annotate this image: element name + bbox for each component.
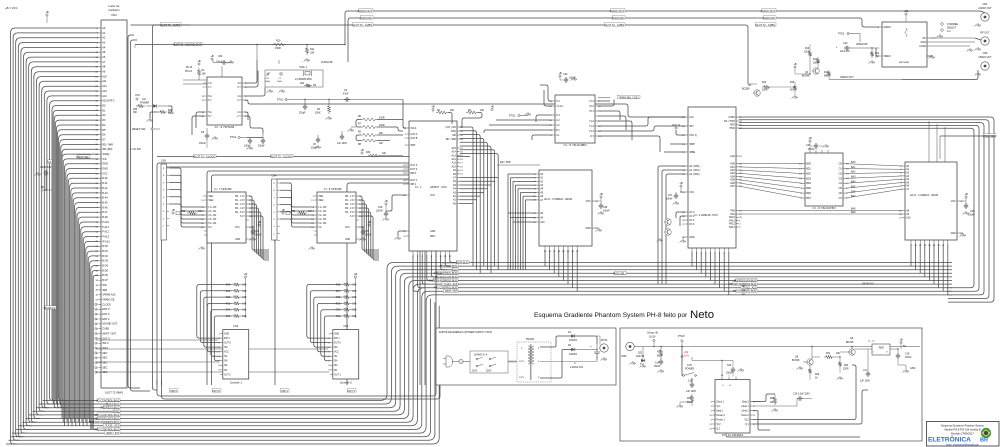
svg-text:VCC Q: VCC Q [672,123,680,127]
capacitor C32 [258,224,260,226]
svg-text:SEC: SEC [102,351,107,355]
capacitor C8 [206,133,208,135]
svg-text:RD / !WR: RD / !WR [500,161,511,164]
svg-text:Neto: Neto [690,309,714,321]
svg-text:P A12: P A12 [102,230,109,234]
wires CPU I/O to keyboard-controller columns [157,163,409,385]
svg-text:SEC: SEC [102,356,107,360]
wire C34 to IC [221,66,223,77]
svg-text:2 A - B1: 2 A - B1 [318,210,327,213]
wires latch to VRAM BA0-7 [846,164,902,166]
svg-text:1 A - B0: 1 A - B0 [318,206,327,209]
resistor R1 [197,68,200,77]
CPU address bundle down [460,127,473,266]
svg-text:XCLK: XCLK [410,127,417,130]
svg-text:6 1Y: 6 1Y [240,216,245,218]
svg-text:INP 1: INP 1 [102,346,109,350]
svg-text:VIDEO OUT: VIDEO OUT [840,76,854,79]
svg-text:110V: 110V [472,371,478,373]
svg-text:OUT 2: OUT 2 [410,168,418,171]
svg-text:Unreg +B: Unreg +B [647,332,658,335]
capacitor C4a 130pF [249,138,251,140]
label AUDIO RF [360,16,373,19]
svg-text:BD2: BD2 [806,172,811,175]
svg-text:!P A13: !P A13 [102,239,110,243]
svg-text:150R: 150R [275,47,281,50]
VRAM data fan [910,244,912,259]
svg-text:BA1: BA1 [851,166,856,169]
svg-text:+B: +B [964,192,968,196]
wire VRAM ICE [940,135,996,137]
svg-text:A12: A12 [102,84,107,88]
buffer CI - 8 74HC368 [317,192,356,243]
svg-text:Clock 1: Clock 1 [716,401,724,403]
svg-text:AUDIO RF: AUDIO RF [612,16,625,20]
RF modulator [882,22,927,67]
svg-text:GND: GND [102,162,108,166]
svg-text:VCC: VCC [102,171,108,175]
svg-text:10K: 10K [242,303,247,305]
svg-text:CLOCK: CLOCK [102,302,111,306]
svg-text:5 Y: 5 Y [208,115,212,118]
svg-text:AUDIO RF: AUDIO RF [321,61,333,64]
svg-text:2K2: 2K2 [790,90,795,92]
svg-text:+B: +B [384,199,388,203]
wire ci9 c [196,112,204,128]
svg-text:Esquema Gradiente Phantom Syst: Esquema Gradiente Phantom System PH-8 fe… [534,312,688,319]
svg-text:Revisão 27/04/2017: Revisão 27/04/2017 [951,432,974,436]
svg-text:2 A: 2 A [237,111,241,114]
svg-text:!INT: !INT [689,125,694,128]
svg-text:BR: BR [980,438,988,444]
svg-text:VCC: VCC [135,94,140,97]
svg-text:BD6: BD6 [806,192,811,195]
svg-text:!M1 (M2): !M1 (M2) [102,147,112,151]
wire video chain [771,86,795,88]
svg-text:+B: +B [244,272,248,276]
svg-text:B D1: B D1 [102,249,108,253]
svg-text:INP 1: INP 1 [410,183,417,186]
svg-text:B D0: B D0 [102,244,108,248]
svg-text:BD1: BD1 [806,168,811,171]
rail unreg [641,346,920,348]
wires cd4013 to q stage [753,365,856,420]
wires Controle 2 pullup nest [307,285,342,339]
svg-text:CN3: CN3 [161,160,166,163]
power supply FONTE DE ENERGIA box [436,328,616,385]
svg-text:A6 CI - 3 UM6116 - SRAM: A6 CI - 3 UM6116 - SRAM [544,198,572,201]
svg-text:Y1-2 C: Y1-2 C [556,106,563,108]
svg-text:!HVR: !HVR [729,127,735,130]
resistor array R28 10K [282,212,284,214]
svg-text:10K: 10K [450,110,455,112]
svg-text:100nF: 100nF [726,373,733,375]
svg-text:SEC: SEC [102,365,107,369]
svg-text:XTAL 1: XTAL 1 [299,66,308,69]
svg-text:B A1: B A1 [102,181,108,185]
svg-text:R2 / !TRH: R2 / !TRH [724,120,735,123]
svg-text:CI - 12: CI - 12 [868,341,875,343]
svg-text:FROM SEL: FROM SEL [76,156,89,159]
svg-text:100nF: 100nF [199,142,206,145]
svg-text:20pF: 20pF [265,81,271,83]
svg-text:EXP 3: EXP 3 [102,312,110,316]
svg-text:2 Y: 2 Y [237,115,241,118]
svg-text:BD5: BD5 [806,187,811,190]
svg-text:330R: 330R [168,113,174,115]
label SLOT 72 - CVBS [352,23,373,26]
label ROM SEL on bus [615,271,627,274]
svg-text:GND: GND [621,355,627,358]
wire AUDIO OUT top bus [345,11,985,45]
svg-text:D5: D5 [102,128,106,132]
svg-text:CVBS: CVBS [728,116,735,119]
wires PPU video nets wrap right edge [739,117,994,302]
svg-text:CVBS: CVBS [102,327,109,331]
svg-text:Y1-3: Y1-3 [589,126,595,128]
svg-text:WAIT / INT: WAIT / INT [106,431,119,435]
svg-text:EXP 0: EXP 0 [102,307,110,311]
svg-text:CN4: CN4 [272,175,277,178]
svg-text:+B: +B [808,136,812,140]
wire fan cartridge buffered bus [62,154,98,418]
label VRAM !CE [983,134,996,137]
svg-text:!CS: !CS [102,157,107,161]
svg-text:POWER: POWER [140,102,149,105]
svg-text:4 A - B3: 4 A - B3 [318,218,327,221]
svg-text:7805: 7805 [878,347,884,350]
svg-text:B A6: B A6 [102,205,108,209]
VRAM vcc C29 [965,196,967,198]
svg-text:!D0: !D0 [452,134,456,137]
svg-text:6 A: 6 A [208,226,212,229]
svg-text:5 A - B4: 5 A - B4 [208,222,217,225]
svg-text:B3 - 4 1Y: B3 - 4 1Y [235,208,245,210]
svg-text:VCC Q: VCC Q [689,134,697,137]
wires cd4013 right [753,394,775,402]
svg-text:6 1Y: 6 1Y [350,216,355,218]
svg-text:O: O [886,352,888,354]
svg-text:D2: D2 [102,113,106,117]
svg-text:!IRQ: !IRQ [451,130,456,133]
svg-text:B D2: B D2 [102,254,108,258]
svg-text:AUDIO OUT: AUDIO OUT [358,9,373,13]
svg-text:OUT 0: OUT 0 [102,336,110,340]
svg-text:RD / !WR: RD / !WR [102,142,113,146]
svg-text:+B: +B [40,185,44,189]
svg-text:A10: A10 [540,221,545,224]
svg-text:D7: D7 [102,138,106,142]
svg-text:AUX B: AUX B [410,137,418,140]
wires CN1 lower section to controllers [96,339,218,341]
svg-text:150K: 150K [315,112,321,115]
svg-text:4 A: 4 A [237,95,241,98]
svg-text:5 A: 5 A [208,111,212,114]
svg-text:OUT 2: OUT 2 [224,374,231,376]
svg-text:SLOT 72 - CVBS: SLOT 72 - CVBS [755,23,775,27]
svg-text:22pF: 22pF [277,81,283,83]
svg-text:+B2: +B2 [904,9,909,13]
svg-text:1 A - B0: 1 A - B0 [208,206,217,209]
svg-text:ROM SEL: ROM SEL [613,271,625,275]
svg-text:Autor: netogomez@hotmail.com: Autor: netogomez@hotmail.com [946,443,979,446]
svg-text:CI - 11 CD4013: CI - 11 CD4013 [722,433,744,437]
svg-text:VCC: VCC [334,352,339,354]
wire slot72 frame vertical [153,25,191,390]
svg-text:A0 ( RS0 ): A0 ( RS0 ) [689,165,700,168]
svg-text:R15: R15 [790,82,795,84]
connector Controle 1 [223,330,249,379]
svg-text:10K: 10K [352,303,357,305]
bottom bus labels [98,398,120,401]
svg-text:33K: 33K [133,112,138,114]
svg-text:RF: RF [923,37,927,40]
wires buffer CI - 8 74HC368 outputs [359,196,379,250]
capacitor C33 [368,224,370,226]
svg-text:OUT 0: OUT 0 [334,343,341,345]
svg-text:ALE: ALE [730,155,735,158]
SRAM gnd [596,228,602,232]
PPU left wires [676,130,685,135]
VRAM gnd [960,233,966,237]
svg-text:1N4736: 1N4736 [636,356,645,358]
svg-text:A10: A10 [906,216,911,219]
SRAM CI-5 UM6116 [539,170,592,246]
svg-text:VIDEO: VIDEO [883,55,891,58]
svg-text:Y1-3: Y1-3 [589,121,595,123]
svg-text:Cartucho: Cartucho [108,8,120,12]
svg-text:C29: C29 [970,210,975,213]
SRAM vcc [600,196,602,198]
svg-text:Controle 2: Controle 2 [340,381,353,385]
svg-text:A10: A10 [452,165,457,168]
svg-text:B4 - 5 1Y: B4 - 5 1Y [235,212,245,214]
wire R1 [198,77,200,80]
label AUDIO OUT [762,9,776,12]
svg-text:CN2: CN2 [233,325,238,328]
svg-text:G: G [729,385,731,387]
svg-text:B4 - 5 1Y: B4 - 5 1Y [345,212,355,214]
crystal XTAL1 oscillator [265,70,323,87]
svg-text:150nF: 150nF [654,366,661,368]
wires buffer CI - 7 74HC368 outputs [249,196,269,250]
wire clock down [247,137,263,139]
svg-text:6,2V: 6,2V [684,355,689,358]
regulator CI-12 7805 [872,344,890,355]
channel select [941,23,944,26]
wires PPU AD to latch [739,163,802,165]
corridor extra lines [11,299,431,437]
wire ci9 a [245,60,257,83]
svg-text:21,453666 MHz: 21,453666 MHz [295,78,313,81]
svg-text:AUDIO OUT: AUDIO OUT [761,9,776,13]
svg-text:1 Y: 1 Y [208,86,212,89]
svg-text:C16 2,2uF 100V: C16 2,2uF 100V [793,394,810,396]
decoder CI-3 74LS138N [555,95,595,143]
svg-text:OUT 0: OUT 0 [410,164,418,167]
svg-text:10K: 10K [352,310,357,312]
svg-text:I/O 2: I/O 2 [689,219,695,222]
svg-text:GND: GND [334,333,339,335]
VRAM top wires [928,121,930,159]
wires modulator rf out [930,37,975,39]
svg-text:OUT 0: OUT 0 [212,389,220,393]
svg-text:Data 1: Data 1 [716,409,723,412]
svg-text:PTG2: PTG2 [838,33,845,36]
wires decoder left [540,85,552,101]
svg-text:220R: 220R [762,90,768,92]
svg-text:PA13: PA13 [729,226,735,229]
svg-text:100R: 100R [813,63,819,65]
svg-text:+B: +B [257,220,261,224]
svg-text:AUDIO: AUDIO [883,26,891,29]
svg-text:RF OUT: RF OUT [981,32,990,35]
keyboard line labels [169,389,178,392]
label AUDIO RF [763,16,776,19]
svg-text:A10: A10 [102,74,107,78]
capacitor C2 220pF [304,104,306,106]
svg-text:127V: 127V [519,377,525,379]
svg-text:BA5: BA5 [851,185,856,188]
svg-text:!RD: !RD [102,283,107,287]
svg-text:CI - 9 74HC04: CI - 9 74HC04 [215,125,235,129]
svg-text:1 A: 1 A [208,82,212,85]
CPU data bus fan [413,255,419,291]
svg-text:+B: +B [490,105,494,109]
svg-text:Controle 1: Controle 1 [230,381,243,385]
svg-text:SOUND OUT: SOUND OUT [102,322,118,326]
svg-text:10K: 10K [242,291,247,293]
svg-text:( M1 ) !D1: ( M1 ) !D1 [445,126,456,129]
svg-text:D3: D3 [102,118,106,122]
svg-text:BD4: BD4 [806,182,811,185]
label ROM SEL fan [78,155,90,158]
svg-text:D0: D0 [102,104,106,108]
svg-text:22uF 25V: 22uF 25V [840,51,850,53]
svg-text:!WR: !WR [102,288,107,292]
svg-text:!OE1: !OE1 [318,196,324,198]
wire q stage [811,347,813,359]
svg-text:+B: +B [171,208,175,212]
svg-text:A2 ( RS2 ): A2 ( RS2 ) [689,173,700,176]
svg-text:4 Y: 4 Y [237,99,241,102]
label SLOT 72 - SOUND OUT [174,42,202,45]
svg-text:10K: 10K [352,316,357,318]
keyboard loop wires [157,380,436,396]
svg-text:FONTE DE ENERGIA (POWER SUPPLY: FONTE DE ENERGIA (POWER SUPPLY UNIT) [439,331,492,334]
svg-text:10K: 10K [836,353,841,355]
svg-text:VCC: VCC [430,194,435,197]
svg-text:4 A - B3: 4 A - B3 [208,218,217,221]
svg-text:B D5: B D5 [102,268,108,272]
svg-text:B A2: B A2 [102,186,108,190]
svg-text:RESET CN0: RESET CN0 [132,128,146,131]
svg-text:10K: 10K [480,110,485,112]
middle band bus labels right [736,278,757,281]
svg-text:GND: GND [430,230,436,233]
svg-text:68R: 68R [824,76,829,78]
svg-text:INP 0: INP 0 [224,338,230,340]
svg-text:A15: A15 [452,147,457,150]
svg-text:10K: 10K [242,310,247,312]
svg-text:AUX A: AUX A [410,133,417,136]
wire SLOT 72 CVBS top bus [131,25,749,84]
svg-text:BA3: BA3 [851,176,856,179]
svg-text:AUDIO OUT: AUDIO OUT [610,9,625,13]
svg-text:!WAIT / !INT: !WAIT / !INT [102,331,116,335]
svg-text:12K: 12K [379,143,384,145]
svg-text:220pF: 220pF [299,113,306,115]
svg-text:220R: 220R [843,369,849,371]
buffer CI - 7 74HC368 [207,192,246,243]
svg-text:3 A - B2: 3 A - B2 [208,214,217,217]
svg-text:BA4: BA4 [851,181,856,184]
svg-text:GND: GND [235,239,240,241]
svg-text:SLOT 72 VBAS: SLOT 72 VBAS [105,391,123,395]
svg-text:!PA 13: !PA 13 [185,70,193,73]
svg-text:A11: A11 [452,162,457,165]
svg-text:C32: C32 [255,231,260,233]
node +B top left [46,14,48,16]
svg-text:1N4001: 1N4001 [569,354,578,356]
svg-text:MST56M0: MST56M0 [899,62,910,64]
connector CN1 cartridge slot [101,20,127,388]
svg-text:Data 2: Data 2 [742,400,749,403]
svg-text:1K: 1K [815,378,818,380]
svg-text:B A5: B A5 [102,201,108,205]
svg-text:P A11: P A11 [102,225,109,229]
svg-text:B2 - 3 1Y: B2 - 3 1Y [345,204,355,206]
svg-text:CI - 5 74LS138N: CI - 5 74LS138N [563,143,586,147]
svg-text:BC558: BC558 [742,88,750,91]
svg-text:SEC: SEC [102,361,107,365]
svg-text:Clear 1: Clear 1 [741,405,749,408]
svg-text:C34: C34 [218,55,223,58]
svg-text:1K: 1K [875,57,878,59]
svg-text:Modelo PH-8 PCI 516 revisão B: Modelo PH-8 PCI 516 revisão B [944,428,980,432]
svg-text:2 A - B1: 2 A - B1 [208,210,217,213]
svg-text:PA 13: PA 13 [186,66,193,69]
svg-text:VRAM !CE: VRAM !CE [102,298,115,302]
wires BA8 BA9 [739,210,902,212]
capacitor C5 220pF [317,137,319,139]
SRAM address wires [508,173,536,175]
svg-text:CN1: CN1 [111,13,117,17]
svg-text:1uF 100V: 1uF 100V [686,391,696,393]
svg-text:16,5V: 16,5V [649,336,656,339]
svg-text:SLOT 72 - CLOCK: SLOT 72 - CLOCK [193,154,215,158]
svg-text:100nF: 100nF [808,149,815,151]
wires CN3 to buffer [170,168,205,207]
svg-text:100nF: 100nF [603,211,610,213]
svg-text:SLOT 72 - CVBS: SLOT 72 - CVBS [604,23,624,27]
wire long vertical a [128,35,140,388]
svg-text:C26: C26 [727,365,732,367]
svg-text:A15 EXP 2: A15 EXP 2 [102,99,115,103]
svg-text:I/O 1: I/O 1 [689,215,695,218]
resistor array R22 10K [172,212,174,214]
svg-text:+B: +B [367,220,371,224]
label SLOT 72 - CVBS left [160,23,181,26]
resistor R14 [870,50,873,58]
svg-text:C17: C17 [863,370,868,372]
svg-text:1uF 100V: 1uF 100V [860,381,870,383]
svg-text:BD0: BD0 [806,163,811,166]
svg-text:B A8: B A8 [102,215,108,219]
svg-text:!Q 1: !Q 1 [716,406,721,408]
svg-text:P A13: P A13 [102,234,109,238]
svg-text:!Q 2: !Q 2 [716,424,721,426]
